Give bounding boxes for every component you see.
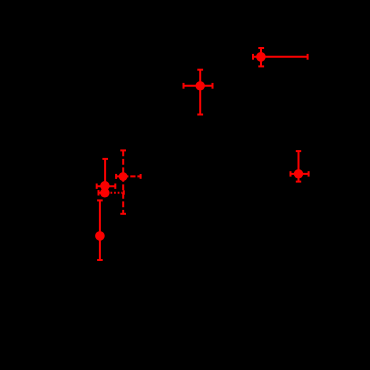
data point E error bars: [97, 159, 116, 189]
data point A error bars: [253, 48, 308, 66]
data point C marker: [294, 169, 303, 178]
data point G error bar: [97, 200, 103, 260]
data point C error bars: [291, 151, 309, 182]
data point D dashed error bars: [116, 150, 141, 213]
data point A marker: [256, 52, 266, 62]
data point F dashed error bar: [99, 190, 124, 195]
data point G marker: [95, 231, 105, 241]
data point B error bars: [184, 70, 213, 115]
data point E marker: [100, 181, 110, 191]
data point B marker: [196, 81, 205, 90]
data point F marker: [100, 188, 110, 198]
data point D marker: [119, 172, 128, 181]
